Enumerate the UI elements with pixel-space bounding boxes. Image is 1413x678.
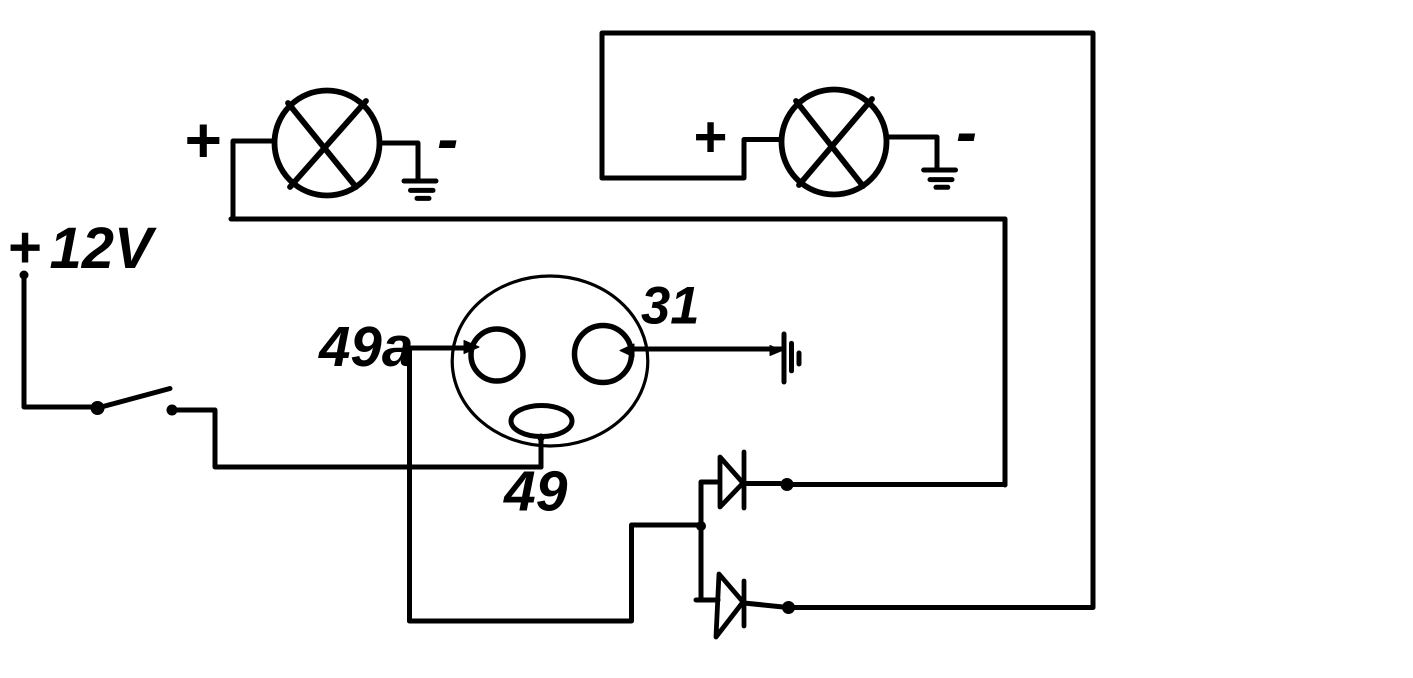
svg-text:-: -	[437, 103, 458, 175]
lamp L1	[275, 91, 380, 196]
wire 49a branch bottom jog	[410, 525, 699, 621]
label +12V	[7, 215, 157, 281]
arrowhead into pin 49a	[464, 341, 479, 354]
svg-text:12V: 12V	[50, 216, 158, 281]
wire pin 49 drop	[539, 436, 544, 467]
wire D1 dot to right rail	[787, 482, 1005, 487]
switch S1 pivot dot	[91, 401, 105, 415]
relay body (flasher unit)	[452, 276, 648, 446]
arrowhead into pin 31	[620, 344, 634, 357]
pin 49 contact ellipse	[511, 406, 572, 437]
wire L2 minus lead	[888, 137, 937, 168]
wire top loop for L2	[602, 33, 1093, 607]
wire 49a branch down	[407, 349, 412, 621]
svg-text:+: +	[693, 105, 727, 170]
diode D2	[716, 574, 744, 637]
wire bus from L1 to right rail	[231, 217, 1005, 222]
junction dot D1 output	[781, 478, 794, 491]
diode D1	[720, 452, 744, 508]
svg-text:+: +	[183, 104, 220, 176]
svg-text:-: -	[956, 98, 977, 168]
pin 49a contact circle	[471, 329, 523, 381]
wire junction to D2 anode	[696, 526, 718, 600]
wire D2 cathode to dot	[744, 603, 788, 608]
ground of L2	[924, 170, 956, 187]
pin 31 contact circle	[575, 326, 632, 383]
junction dot D2 output	[782, 601, 795, 614]
svg-text:31: 31	[641, 277, 699, 336]
svg-text:+: +	[7, 215, 41, 280]
wire right rail to diode D1	[1003, 219, 1008, 485]
svg-text:49a: 49a	[318, 315, 413, 378]
wire switch to pin 49	[172, 410, 541, 467]
wire 31 to ground	[634, 347, 781, 352]
wire D2 dot to far right rail	[789, 605, 1094, 610]
lamp L2	[782, 90, 887, 195]
wire junction to D1 anode	[701, 482, 717, 526]
wire L1 minus lead	[381, 143, 418, 180]
wire D1 cathode to dot	[744, 481, 780, 486]
junction dot pin 49	[538, 435, 545, 442]
ground of L1	[404, 181, 436, 198]
wire L1 plus lead	[233, 141, 273, 219]
terminal dot +12V	[20, 271, 29, 280]
ground of pin 31 (rotated)	[770, 346, 782, 356]
wire 49a lead	[411, 346, 466, 351]
wire +12V to switch	[24, 275, 92, 407]
switch S1 blade	[98, 389, 171, 409]
junction dot diode anodes	[696, 521, 706, 531]
switch S1 contact dot	[167, 405, 178, 416]
wire L2 plus lead	[602, 140, 780, 179]
